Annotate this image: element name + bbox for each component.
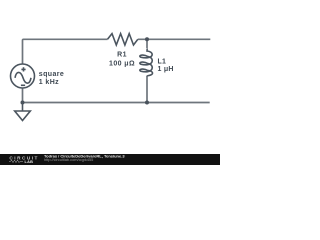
- wire: top rail from R1 right end to open end: [138, 38, 211, 40]
- svg-text:1 μH: 1 μH: [158, 66, 174, 73]
- svg-text:http://circuitlab.com/cqpk455: http://circuitlab.com/cqpk455: [44, 157, 93, 162]
- wire: bottom rail: [23, 102, 210, 104]
- svg-text:square: square: [39, 71, 64, 78]
- watermark bar: [0, 154, 220, 165]
- wire: inductor bottom stub: [146, 76, 148, 103]
- ground: [15, 103, 31, 121]
- label R1: [109, 52, 135, 68]
- svg-text:100 μΩ: 100 μΩ: [109, 60, 135, 67]
- logo resistor zigzag: [9, 160, 23, 163]
- label: square 1 kHz: [39, 71, 64, 86]
- svg-text:L1: L1: [158, 58, 167, 65]
- wire: source bottom to bottom rail: [22, 88, 24, 103]
- wire: top-left from source top up and right to R1: [23, 39, 108, 64]
- node junction: L1 bottom: [145, 101, 149, 105]
- svg-text:R1: R1: [117, 52, 127, 59]
- node junction: R1/L1 top: [145, 37, 149, 41]
- inductor L1: [140, 49, 153, 77]
- label L1: [158, 58, 174, 73]
- svg-text:LAB: LAB: [25, 160, 34, 164]
- resistor R1: [108, 34, 138, 45]
- voltage source V1 (square 1 kHz): [11, 64, 35, 88]
- node junction: source/ground: [21, 101, 25, 105]
- wire: inductor top stub: [146, 39, 148, 48]
- svg-text:1 kHz: 1 kHz: [39, 79, 59, 86]
